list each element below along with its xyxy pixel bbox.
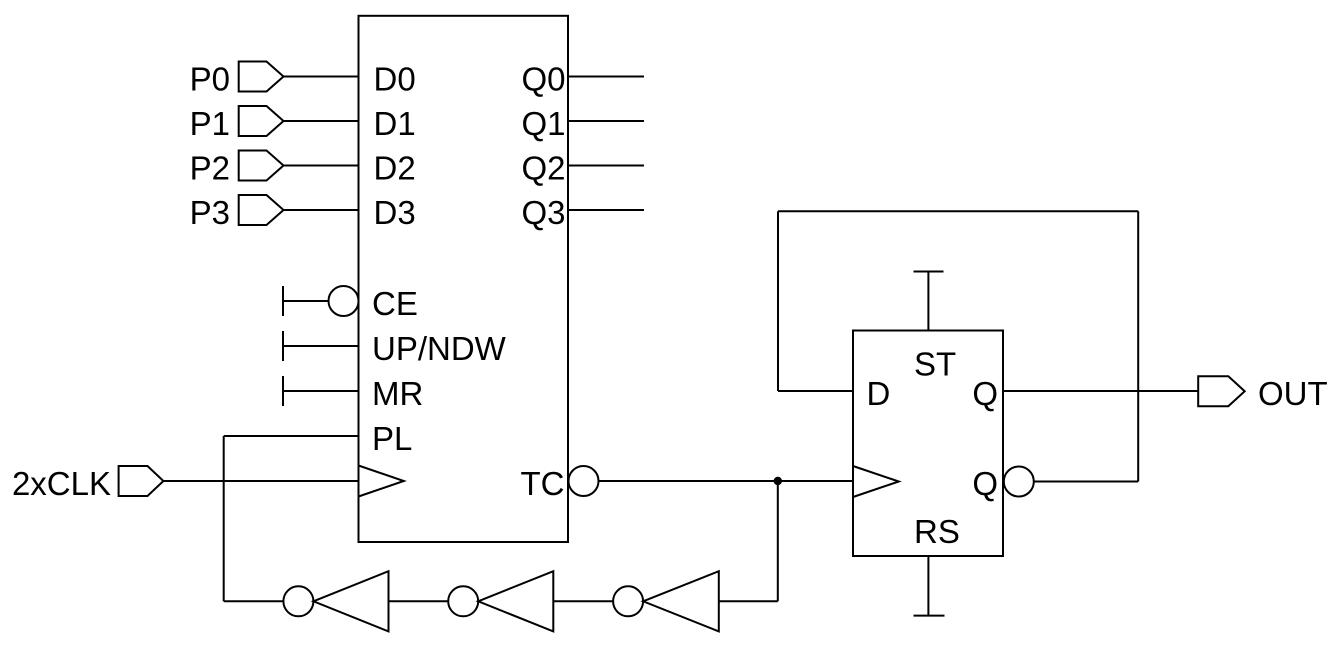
flip-flop clock edge triangle: [853, 466, 899, 497]
inverter U2 output bubble: [283, 586, 313, 616]
label OUT: [1258, 375, 1328, 412]
wire P3 to D3: [284, 209, 359, 211]
label P2: [190, 150, 230, 187]
inverter U4 triangle: [643, 571, 719, 631]
wire CE stub: [283, 300, 329, 302]
connector P0: [239, 62, 284, 92]
connector P2: [239, 151, 284, 181]
svg-text:UP/NDW: UP/NDW: [372, 330, 507, 367]
wire inverter chain left segment: [224, 600, 284, 602]
wire Qbar to feedback: [1034, 481, 1138, 483]
wire 2xCLK to counter clock: [163, 480, 358, 482]
counter clock edge triangle: [359, 466, 404, 497]
UP/NDW stub end bar: [282, 331, 284, 361]
label P0: [190, 61, 230, 98]
svg-text:CE: CE: [372, 285, 418, 322]
wire TC to flip-flop clock: [599, 480, 854, 482]
wire Q to OUT: [1003, 390, 1198, 392]
label P3: [190, 194, 230, 231]
pin label CE: [372, 285, 418, 322]
wire UP/NDW stub: [283, 345, 359, 347]
svg-text:P3: P3: [190, 194, 230, 231]
svg-text:P1: P1: [190, 105, 230, 142]
wire inverter U2-U3: [389, 600, 449, 602]
pin label D3: [374, 194, 416, 231]
pin label D2: [374, 150, 416, 187]
wire Q1: [568, 120, 644, 122]
junction node TC/feedback: [775, 478, 781, 484]
wire junction down to inverter chain: [777, 481, 779, 601]
svg-text:PL: PL: [372, 420, 412, 457]
inverter U3 triangle: [478, 571, 553, 631]
label P1: [190, 105, 230, 142]
counter U1 body: [359, 16, 569, 542]
pin label Q3: [521, 194, 565, 231]
svg-text:D3: D3: [374, 194, 416, 231]
connector OUT: [1198, 376, 1245, 406]
pin label ST: [914, 346, 956, 383]
svg-text:D2: D2: [374, 150, 416, 187]
TC inversion bubble: [569, 466, 599, 496]
pin label D: [867, 375, 891, 412]
RS stub end bar: [914, 615, 945, 617]
MR stub end bar: [282, 376, 284, 406]
wire inverter U3-U4: [553, 600, 613, 602]
CE stub end bar: [282, 286, 284, 316]
pin label Q0: [521, 61, 565, 98]
wire Q0: [568, 76, 644, 78]
wire feedback left vertical to D: [777, 211, 779, 391]
wire PL vertical down to inverter chain: [223, 436, 225, 601]
svg-text:MR: MR: [372, 375, 423, 412]
svg-text:Q0: Q0: [521, 61, 565, 98]
inverter U3 output bubble: [448, 586, 478, 616]
wire Q3: [568, 209, 644, 211]
label 2xCLK: [12, 465, 111, 502]
svg-text:P2: P2: [190, 150, 230, 187]
CE inversion bubble: [329, 286, 359, 316]
ST stub end bar: [914, 271, 944, 273]
pin label TC: [521, 465, 565, 502]
wire Q2: [568, 165, 644, 167]
connector P1: [239, 106, 284, 136]
svg-text:Q1: Q1: [521, 105, 565, 142]
inverter U2 triangle: [313, 571, 388, 631]
Qbar inversion bubble: [1004, 467, 1034, 497]
svg-text:TC: TC: [521, 465, 565, 502]
svg-text:ST: ST: [914, 346, 956, 383]
svg-text:D: D: [867, 375, 891, 412]
flip-flop U5 body: [853, 331, 1003, 557]
wire MR stub: [283, 390, 359, 392]
wire P1 to D1: [284, 120, 359, 122]
wire P2 to D2: [284, 165, 359, 167]
pin label D1: [374, 105, 416, 142]
wire D input: [778, 390, 853, 392]
RS stub wire: [927, 556, 929, 616]
pin label Q1: [521, 105, 565, 142]
pin label Q2: [521, 150, 565, 187]
svg-text:Q2: Q2: [521, 150, 565, 187]
wire inverter chain right segment: [719, 600, 778, 602]
connector P3: [239, 195, 284, 225]
svg-text:RS: RS: [914, 513, 960, 550]
wire feedback top horizontal: [778, 210, 1138, 212]
inverter U4 output bubble: [613, 586, 643, 616]
svg-text:Q3: Q3: [521, 194, 565, 231]
wire PL horizontal: [224, 435, 359, 437]
pin label Qbar: [972, 465, 998, 502]
pin label D0: [374, 61, 416, 98]
svg-text:P0: P0: [190, 61, 230, 98]
svg-text:2xCLK: 2xCLK: [12, 465, 111, 502]
connector 2xCLK: [119, 466, 164, 496]
pin label UP/NDW: [372, 330, 507, 367]
ST stub wire: [927, 272, 929, 331]
svg-text:OUT: OUT: [1258, 375, 1328, 412]
wire P0 to D0: [284, 76, 359, 78]
svg-text:D0: D0: [374, 61, 416, 98]
svg-text:Q: Q: [972, 375, 998, 412]
pin label MR: [372, 375, 423, 412]
svg-text:D1: D1: [374, 105, 416, 142]
pin label PL: [372, 420, 412, 457]
pin label RS: [914, 513, 960, 550]
pin label Q: [972, 375, 998, 412]
svg-text:Q: Q: [972, 465, 998, 502]
wire feedback right vertical: [1137, 211, 1139, 481]
